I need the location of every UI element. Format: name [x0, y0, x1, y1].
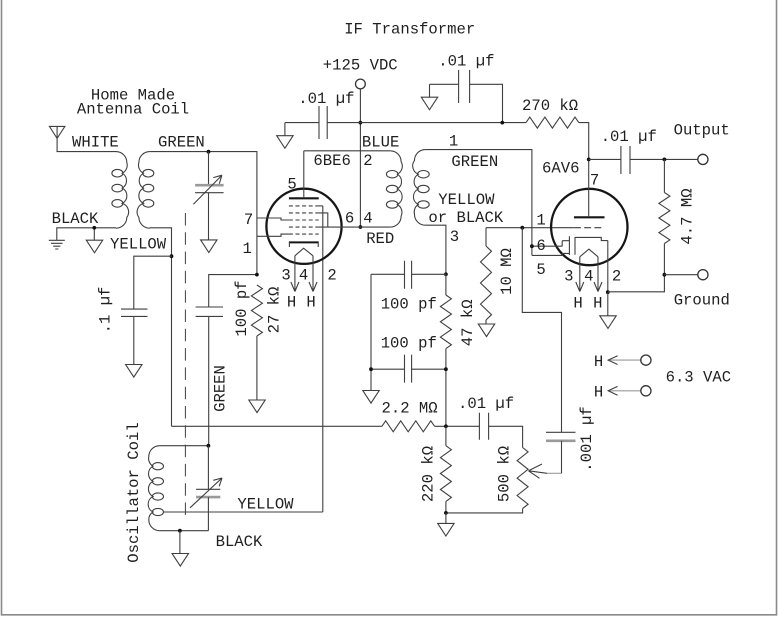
- svg-text:4: 4: [299, 267, 308, 285]
- svg-text:.01 µf: .01 µf: [298, 90, 354, 108]
- ground under bus: [277, 136, 293, 149]
- svg-text:7: 7: [590, 172, 599, 190]
- IF transformer secondary winding: [413, 150, 430, 226]
- svg-text:BLACK: BLACK: [216, 533, 263, 551]
- wire black lead: [57, 228, 116, 240]
- wire green lead: [150, 152, 257, 274]
- svg-text:1: 1: [449, 133, 458, 151]
- wire cap to output: [630, 158, 698, 160]
- svg-text:100 pf: 100 pf: [233, 280, 251, 336]
- svg-text:4: 4: [584, 267, 593, 285]
- svg-text:100 pf: 100 pf: [381, 296, 437, 314]
- heater terminal arrow a: [608, 359, 641, 361]
- terminal ground: [698, 270, 708, 280]
- tube 6AV6 envelope: [551, 189, 627, 265]
- node green: [207, 150, 211, 154]
- wire 10M lead: [485, 228, 487, 246]
- wire 10M to ground: [485, 320, 487, 324]
- wire 220k gnd stub: [445, 513, 447, 524]
- wire IF green lead: [425, 150, 532, 256]
- svg-text:.1 µf: .1 µf: [97, 287, 115, 334]
- svg-text:2: 2: [327, 267, 336, 285]
- wire 100pf top: [209, 275, 257, 307]
- resistor 2.2M: [382, 421, 435, 432]
- svg-text:220 kΩ: 220 kΩ: [420, 446, 438, 502]
- capacitor .01uf left plates: [319, 106, 327, 139]
- ground under top cap: [421, 97, 437, 110]
- svg-text:4.7 MΩ: 4.7 MΩ: [679, 188, 697, 244]
- wire plate to cap: [589, 158, 621, 160]
- svg-text:Antenna Coil: Antenna Coil: [77, 101, 189, 119]
- node osc top: [207, 444, 211, 448]
- node red junction: [359, 225, 363, 229]
- wire 270k to 6AV6: [579, 123, 589, 160]
- ground under .1uf: [126, 365, 142, 378]
- 6AV6 plate bar: [574, 216, 605, 218]
- svg-text:2: 2: [612, 267, 621, 285]
- node osc bottom: [178, 529, 182, 533]
- svg-text:GREEN: GREEN: [212, 365, 230, 412]
- svg-text:5: 5: [536, 261, 545, 279]
- node output: [663, 158, 667, 162]
- wire yellow lead: [150, 228, 172, 426]
- svg-text:YELLOW: YELLOW: [110, 235, 167, 253]
- IF transformer primary winding: [386, 151, 402, 227]
- node black junction: [92, 226, 96, 230]
- svg-text:4: 4: [363, 210, 372, 228]
- svg-text:3: 3: [450, 228, 459, 246]
- oscillator coil winding: [148, 446, 163, 531]
- svg-text:6AV6: 6AV6: [542, 160, 579, 178]
- svg-text:Ground: Ground: [674, 292, 730, 310]
- capacitor .01uf bottom plates: [479, 413, 488, 440]
- 6BE6 heater arrow pin3: [291, 256, 299, 292]
- wire pin6 diode: [532, 245, 562, 247]
- ground under osc coil: [172, 554, 188, 567]
- terminal 6.3vac b: [641, 386, 651, 396]
- potentiometer 500k: [517, 448, 528, 509]
- capacitor .01uf output plates: [621, 146, 630, 174]
- node bus right: [500, 121, 504, 125]
- wire bus gnd stub: [284, 123, 286, 136]
- svg-text:H: H: [306, 294, 315, 312]
- ground under 100pf: [363, 391, 379, 404]
- svg-text:IF Transformer: IF Transformer: [344, 20, 475, 38]
- resistor 270k: [526, 117, 579, 128]
- svg-text:+125 VDC: +125 VDC: [323, 57, 398, 75]
- capacitor .01uf top plates: [459, 70, 470, 103]
- node 6AV6 cathode: [606, 290, 610, 294]
- 6BE6 heater caret: [295, 248, 313, 256]
- wire bus mid: [327, 122, 526, 124]
- antenna: [49, 126, 65, 151]
- svg-text:GREEN: GREEN: [158, 134, 205, 152]
- capacitor .001uf plates: [546, 431, 576, 433]
- node pot bottom: [444, 511, 448, 515]
- wire ground terminal: [664, 274, 697, 276]
- node ground terminal: [663, 273, 667, 277]
- svg-text:6.3 VAC: 6.3 VAC: [666, 368, 732, 386]
- wire red lead: [360, 226, 390, 228]
- wire to .1uf cap: [134, 256, 172, 309]
- svg-text:100 pf: 100 pf: [381, 335, 437, 353]
- svg-text:H: H: [593, 295, 602, 313]
- wire grid to .001: [522, 228, 561, 433]
- arrow C1: [193, 175, 222, 204]
- 6AV6 pin7 lead: [588, 159, 590, 216]
- svg-text:47 kΩ: 47 kΩ: [459, 299, 477, 346]
- svg-text:BLUE: BLUE: [362, 134, 399, 152]
- 6AV6 grid: [574, 227, 605, 229]
- capacitor 100pf B plates: [405, 355, 412, 383]
- svg-text:270 kΩ: 270 kΩ: [522, 97, 578, 115]
- svg-text:or BLACK: or BLACK: [428, 209, 504, 227]
- heater terminal arrow b: [608, 390, 641, 392]
- 6BE6 pin7 tap: [257, 218, 289, 220]
- wire 27k to ground: [256, 336, 258, 400]
- wire 100pf left leg: [370, 274, 372, 390]
- capacitor 100pf antenna plates: [196, 307, 223, 316]
- dashed gang line: [184, 213, 186, 517]
- 6BE6 heater arrow pin4: [309, 256, 317, 292]
- svg-text:2: 2: [363, 152, 372, 170]
- svg-text:.01 µf: .01 µf: [458, 395, 514, 413]
- svg-text:H: H: [573, 295, 582, 313]
- svg-text:7: 7: [244, 211, 253, 229]
- svg-text:WHITE: WHITE: [72, 134, 119, 152]
- wire .001 to wiper: [561, 441, 563, 474]
- resistor 220k: [440, 446, 451, 502]
- svg-text:6BE6: 6BE6: [313, 152, 350, 170]
- 6AV6 heater arrow pin3: [576, 257, 584, 292]
- wire supply down: [359, 89, 361, 227]
- svg-text:.01 µf: .01 µf: [438, 52, 494, 70]
- wire osc coil top: [160, 445, 209, 447]
- wire yellow tap: [163, 511, 322, 513]
- 6BE6 plate bar: [289, 197, 319, 199]
- svg-text:6: 6: [345, 209, 354, 227]
- wire .1uf to ground: [133, 316, 135, 364]
- svg-text:GREEN: GREEN: [451, 153, 498, 171]
- arrow C2: [190, 478, 222, 508]
- capacitor .1uf plates: [121, 309, 148, 316]
- node diode junction: [530, 244, 534, 248]
- resistor 47k: [440, 295, 451, 349]
- wire 4.7M top lead: [663, 159, 665, 192]
- node supply bus: [359, 121, 363, 125]
- resistor 27k: [251, 285, 262, 336]
- resistor 4.7M: [659, 193, 670, 244]
- svg-text:.01 µf: .01 µf: [601, 128, 657, 146]
- svg-text:H: H: [287, 294, 296, 312]
- 6AV6 pin2 lead: [607, 241, 609, 293]
- wire antenna to coil: [57, 151, 117, 153]
- wire avc line: [172, 425, 382, 427]
- 6BE6 grid24 step: [319, 213, 328, 227]
- wire 100pf B: [371, 368, 446, 370]
- wire pin6 to red node: [319, 226, 361, 228]
- wire IF pin3 lead: [425, 225, 446, 274]
- antenna coil primary winding: [112, 152, 129, 229]
- ground under 6AV6: [600, 316, 616, 329]
- svg-text:1: 1: [243, 240, 252, 258]
- terminal +125: [356, 79, 366, 89]
- 6BE6 cathode bar: [289, 241, 319, 243]
- svg-text:YELLOW: YELLOW: [237, 496, 294, 514]
- variable capacitor C2 plates: [196, 488, 220, 490]
- 6AV6 heater arrow pin4: [594, 257, 602, 292]
- wire 2.2M to node: [435, 425, 480, 427]
- svg-text:YELLOW: YELLOW: [438, 191, 495, 209]
- wire osc coil bottom: [160, 530, 209, 532]
- svg-text:Output: Output: [674, 122, 730, 140]
- wire bus left: [285, 122, 319, 124]
- svg-text:1: 1: [536, 212, 545, 230]
- wire pin5 diode: [532, 254, 562, 256]
- svg-text:10 MΩ: 10 MΩ: [498, 248, 516, 295]
- resistor 10M: [481, 246, 492, 320]
- ground under 220k: [438, 523, 454, 536]
- ground under tuning cap: [201, 240, 217, 253]
- node 100pf top: [444, 272, 448, 276]
- node avc: [444, 424, 448, 428]
- svg-text:.001 µf: .001 µf: [578, 406, 596, 472]
- wire cathode gnd stub: [607, 292, 609, 316]
- svg-text:27 kΩ: 27 kΩ: [266, 287, 284, 334]
- wire tuning cap to ground: [208, 193, 210, 240]
- node 6AV6 plate: [587, 158, 591, 162]
- wire osc cap top: [207, 446, 209, 490]
- svg-text:5: 5: [287, 176, 296, 194]
- wire ground stub: [93, 228, 95, 240]
- capacitor 100pf A plates: [405, 261, 412, 289]
- ground under 10M: [478, 324, 494, 337]
- wire osc cap bottom: [207, 497, 209, 531]
- ground under 27k: [249, 400, 265, 413]
- earth ground symbol: [49, 240, 65, 249]
- 6BE6 pin1 tap: [257, 234, 289, 236]
- wire 6BE6 pin2 cathode: [322, 206, 324, 512]
- antenna coil secondary winding: [137, 152, 154, 229]
- node 27k junction: [255, 273, 259, 277]
- svg-text:H: H: [594, 384, 603, 402]
- svg-text:Oscillator Coil: Oscillator Coil: [125, 422, 143, 562]
- svg-text:3: 3: [281, 267, 290, 285]
- wire 220k leads: [445, 426, 447, 513]
- wire 6AV6 grid row: [486, 227, 574, 229]
- tube 6BE6 envelope: [266, 189, 341, 264]
- svg-text:RED: RED: [366, 230, 394, 248]
- svg-text:H: H: [594, 353, 603, 371]
- wire pot bottom: [446, 509, 523, 513]
- wire green osc lead: [208, 316, 210, 445]
- wire 4.7M bottom lead: [608, 244, 664, 292]
- wire to tuning cap: [208, 152, 210, 185]
- svg-text:3: 3: [564, 267, 573, 285]
- svg-text:500 kΩ: 500 kΩ: [496, 446, 514, 502]
- 6BE6 pin5 lead: [303, 151, 305, 197]
- variable capacitor C1 plates: [195, 184, 224, 187]
- wire cap row: [430, 84, 503, 122]
- ground under antenna coil: [86, 240, 102, 253]
- wire blue lead: [304, 150, 391, 152]
- 6AV6 cathode: [575, 237, 608, 254]
- 6AV6 diode plates: [562, 236, 569, 255]
- svg-text:BLACK: BLACK: [52, 210, 99, 228]
- 6BE6 grids: [289, 206, 319, 234]
- svg-text:2.2 MΩ: 2.2 MΩ: [382, 399, 438, 417]
- wire 47k leads: [445, 274, 447, 426]
- terminal 6.3vac a: [641, 355, 651, 365]
- wire 100pf A: [371, 273, 446, 275]
- 6AV6 heater caret: [580, 249, 598, 257]
- node grid junction: [520, 226, 524, 230]
- wire osc ground stub: [179, 531, 181, 554]
- 6BE6 grid1 to pin2: [319, 205, 323, 207]
- node .1uf tap: [170, 254, 174, 258]
- node 100pf bottom: [444, 367, 448, 371]
- terminal output: [698, 154, 708, 164]
- pot wiper arrow: [547, 472, 562, 474]
- node 100pf left: [369, 367, 373, 371]
- wire cap to pot: [489, 426, 523, 447]
- wire cap gnd stub: [429, 84, 431, 97]
- svg-text:6: 6: [536, 237, 545, 255]
